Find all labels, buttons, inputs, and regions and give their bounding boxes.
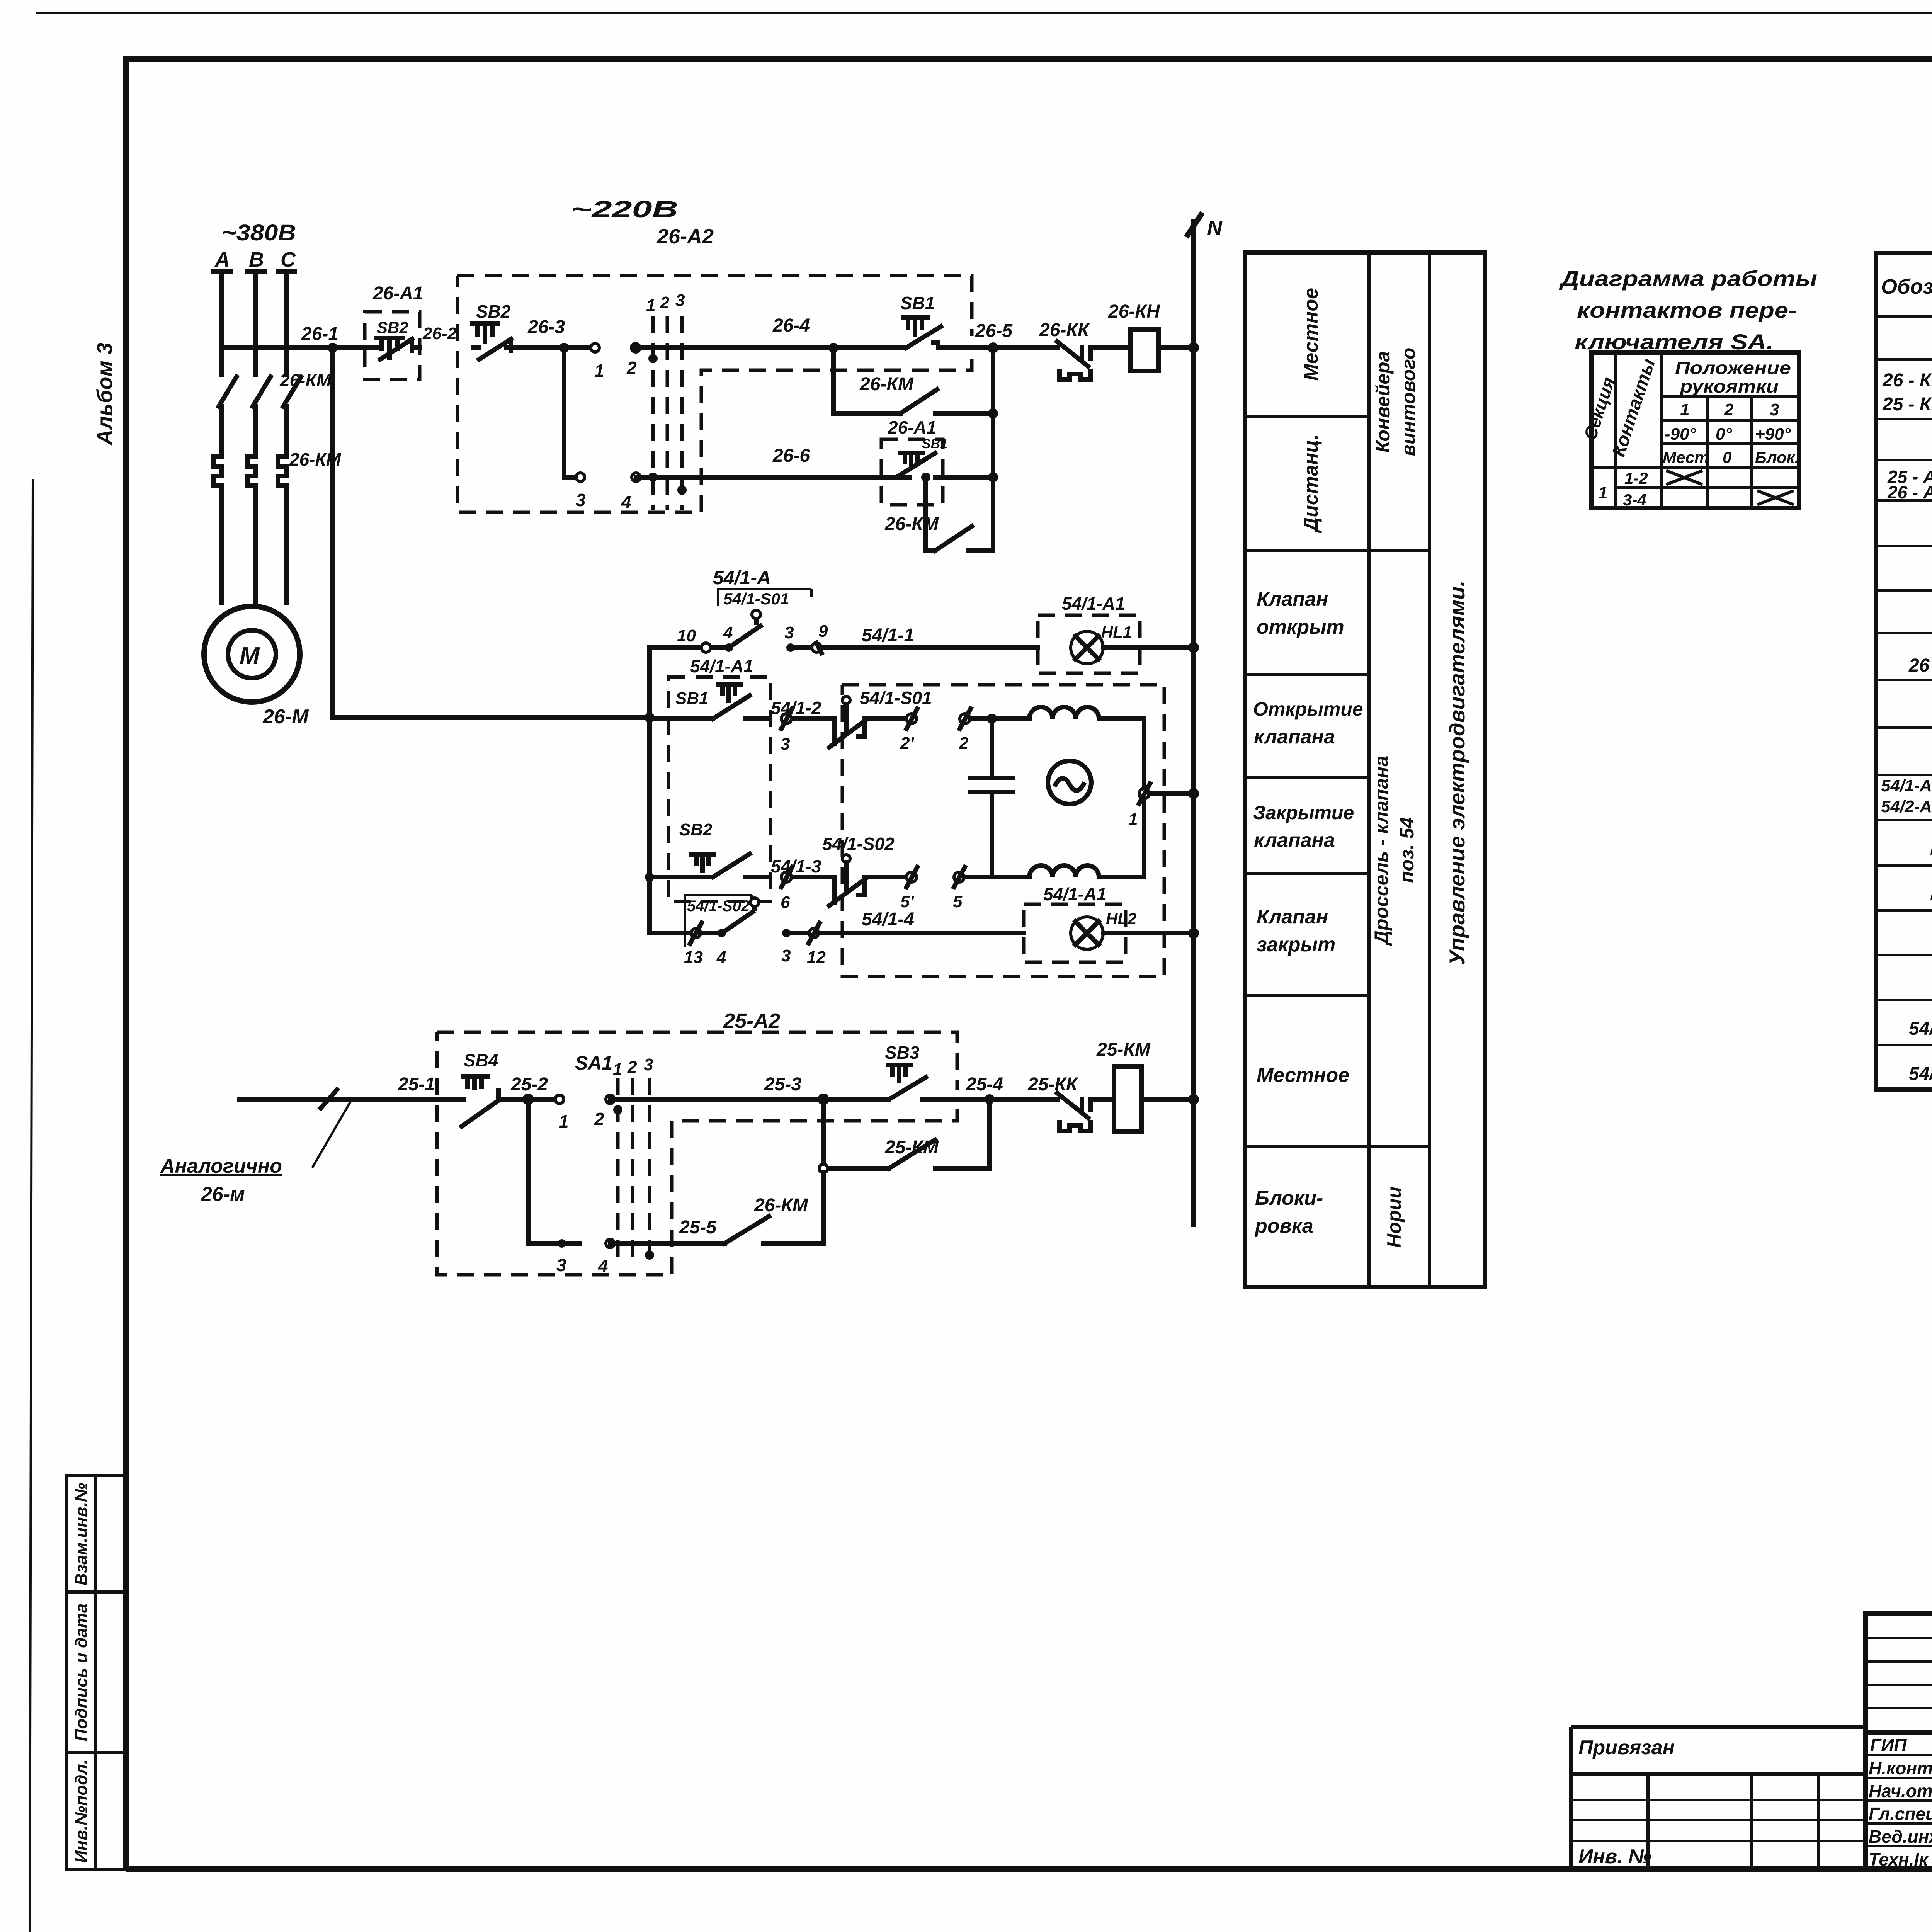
svg-text:4: 4: [621, 492, 631, 512]
svg-text:54/1-А1: 54/1-А1: [690, 656, 753, 676]
winding bottom: [1029, 866, 1099, 877]
svg-text:26-КМ: 26-КМ: [279, 370, 332, 390]
svg-text:Вед.инж.: Вед.инж.: [1869, 1827, 1932, 1847]
left riser: [647, 648, 652, 933]
svg-text:26-КМ: 26-КМ: [754, 1195, 808, 1216]
svg-text:Нач.отд.: Нач.отд.: [1869, 1781, 1932, 1801]
terminal 1: [555, 1095, 564, 1104]
svg-text:54/1-2: 54/1-2: [771, 698, 821, 718]
svg-text:Подпись и дата: Подпись и дата: [72, 1604, 91, 1742]
phase B line: [247, 272, 264, 375]
svg-text:Местное: Местное: [1257, 1064, 1349, 1087]
svg-text:0°: 0°: [1716, 425, 1732, 444]
svg-text:А: А: [214, 248, 230, 271]
svg-text:1: 1: [613, 1060, 622, 1079]
svg-text:3: 3: [781, 735, 790, 753]
svg-text:54/1-S02: 54/1-S02: [822, 834, 895, 854]
node 25-3: [819, 1095, 828, 1104]
svg-text:открыт: открыт: [1257, 616, 1344, 638]
svg-text:~220В: ~220В: [571, 196, 678, 222]
svg-text:В: В: [249, 248, 264, 271]
svg-text:Клапан: Клапан: [1257, 906, 1328, 928]
terminal 2: [631, 344, 640, 352]
svg-text:26-6: 26-6: [772, 446, 810, 466]
svg-text:поз. 54: поз. 54: [1396, 817, 1418, 883]
svg-text:контактов пере-: контактов пере-: [1577, 298, 1797, 322]
lamp HL1: [1071, 631, 1103, 664]
outer of signature grid: [1866, 1613, 1932, 1869]
svg-text:Обознач.: Обознач.: [1881, 275, 1932, 298]
aux contact 26-KM row1: [833, 348, 993, 413]
svg-text:HL1: HL1: [1930, 838, 1932, 859]
thermal elements 26-KM: [213, 457, 286, 603]
svg-text:ровка: ровка: [1254, 1215, 1313, 1237]
svg-text:HL2: HL2: [1106, 910, 1136, 928]
thick middle line: [1866, 1730, 1932, 1735]
svg-text:10: 10: [677, 626, 696, 645]
SA switch columns: [653, 316, 682, 510]
svg-text:0: 0: [1723, 448, 1731, 466]
svg-text:SB1: SB1: [675, 689, 709, 708]
svg-text:Положение: Положение: [1675, 358, 1791, 378]
svg-text:2: 2: [660, 293, 670, 312]
svg-text:26-М: 26-М: [262, 706, 309, 728]
node 26-5: [988, 342, 998, 353]
svg-text:4: 4: [716, 948, 726, 967]
svg-text:5': 5': [900, 892, 914, 911]
svg-text:25-3: 25-3: [764, 1074, 801, 1095]
node before SB1: [828, 343, 838, 353]
terminal 5': [906, 872, 917, 882]
label 54/1-S01 bracket: [718, 589, 811, 606]
svg-text:HL1: HL1: [1101, 623, 1132, 641]
svg-text:1-2: 1-2: [1624, 469, 1648, 487]
svg-text:54/1-S01: 54/1-S01: [723, 590, 789, 608]
svg-text:Клапан: Клапан: [1257, 588, 1328, 611]
box 26-A1 first: [365, 312, 420, 379]
svg-text:рукоятки: рукоятки: [1679, 376, 1779, 396]
node: [559, 343, 569, 353]
node 25-4: [985, 1094, 995, 1104]
svg-text:Привязан: Привязан: [1578, 1736, 1675, 1759]
capacitor: [971, 719, 1013, 877]
svg-text:Блок.: Блок.: [1755, 448, 1799, 466]
svg-text:26 - КМ: 26 - КМ: [1882, 370, 1932, 391]
svg-text:Конвейера: Конвейера: [1372, 351, 1394, 452]
svg-text:Гл.спец.: Гл.спец.: [1869, 1804, 1932, 1824]
svg-text:закрыт: закрыт: [1257, 934, 1335, 956]
svg-text:Закрытие: Закрытие: [1253, 802, 1354, 823]
svg-text:Управление электродвигателями: Управление электродвигателями.: [1445, 580, 1469, 965]
svg-text:+90°: +90°: [1755, 425, 1791, 444]
svg-text:3: 3: [784, 623, 794, 642]
svg-text:Мест: Мест: [1663, 448, 1709, 466]
svg-text:Диаграмма работы: Диаграмма работы: [1559, 266, 1817, 291]
terminal 1: [591, 344, 599, 352]
svg-text:Альбом 3: Альбом 3: [92, 342, 117, 446]
svg-text:SB3: SB3: [885, 1043, 920, 1063]
svg-text:Дистанц.: Дистанц.: [1300, 434, 1322, 534]
svg-text:4: 4: [598, 1256, 608, 1276]
svg-text:54/2-А: 54/2-А: [1909, 1064, 1932, 1084]
svg-text:25 - КМ: 25 - КМ: [1882, 394, 1932, 415]
svg-text:Инв.№подл.: Инв.№подл.: [72, 1759, 91, 1863]
svg-text:SB2: SB2: [377, 318, 408, 337]
terminal 2: [960, 714, 970, 724]
svg-text:54/1-3: 54/1-3: [771, 856, 821, 876]
signature rows: [1866, 1754, 1932, 1756]
svg-text:54/1-4: 54/1-4: [862, 909, 914, 930]
svg-text:25-4: 25-4: [966, 1074, 1003, 1095]
feeder wire from node 26-1: [333, 348, 650, 718]
svg-text:2': 2': [900, 734, 914, 753]
svg-text:Техн.Iк: Техн.Iк: [1869, 1849, 1929, 1869]
svg-text:5: 5: [953, 892, 963, 911]
26-A2 box outline: [457, 276, 972, 512]
wire 26-3: [511, 345, 595, 350]
terminal 1: [1139, 789, 1149, 799]
left attachment area: [1571, 1725, 1866, 1729]
25-A2 box outline: [437, 1032, 957, 1275]
node 26-1: [328, 343, 338, 353]
svg-text:54/1-А1: 54/1-А1: [1062, 594, 1125, 614]
svg-text:клапана: клапана: [1254, 829, 1335, 852]
svg-text:25-2: 25-2: [510, 1074, 548, 1095]
svg-text:26-А2: 26-А2: [656, 225, 714, 248]
svg-text:С: С: [281, 248, 296, 271]
svg-text:4: 4: [723, 623, 733, 642]
svg-text:54/1-А1: 54/1-А1: [1043, 884, 1107, 904]
table: [1592, 353, 1799, 508]
svg-text:Блоки-: Блоки-: [1255, 1187, 1323, 1209]
svg-text:2: 2: [1724, 400, 1734, 419]
svg-text:26-м: 26-м: [201, 1183, 245, 1206]
leader line: [312, 1100, 352, 1168]
svg-text:М: М: [240, 643, 260, 669]
S02 aux bracket: [685, 895, 752, 947]
svg-text:SA1: SA1: [575, 1052, 612, 1074]
svg-text:26-А1: 26-А1: [888, 417, 936, 437]
svg-text:3: 3: [675, 291, 685, 310]
svg-text:SB1: SB1: [922, 437, 947, 451]
svg-text:Местное: Местное: [1300, 288, 1322, 381]
node: [524, 1095, 532, 1104]
svg-text:Инв. №: Инв. №: [1578, 1845, 1651, 1868]
svg-text:6: 6: [781, 893, 790, 912]
node actuator output to N: [1188, 788, 1199, 799]
svg-text:1: 1: [559, 1111, 569, 1131]
node HL1 row to N: [1188, 642, 1199, 653]
svg-text:26-КН: 26-КН: [1108, 301, 1160, 322]
svg-text:клапана: клапана: [1254, 726, 1335, 748]
svg-text:Аналогично: Аналогично: [160, 1155, 282, 1177]
svg-text:Нории: Нории: [1383, 1187, 1405, 1248]
svg-text:3: 3: [576, 490, 586, 510]
svg-text:1: 1: [1598, 483, 1607, 502]
svg-text:~380В: ~380В: [222, 220, 296, 245]
terminal 5: [954, 872, 964, 882]
merge column: [991, 348, 995, 551]
svg-text:25-КМ: 25-КМ: [1096, 1039, 1151, 1060]
terminal 3: [781, 714, 791, 724]
wire bus from phase A: [222, 345, 365, 350]
svg-text:SB4: SB4: [464, 1050, 498, 1070]
svg-text:Н.контр.: Н.контр.: [1869, 1758, 1932, 1778]
row 54/1-1 aux switch: [650, 645, 699, 650]
svg-text:26-КК: 26-КК: [1039, 320, 1090, 340]
N neutral line: [1188, 215, 1201, 1224]
svg-text:Дроссель - клапана: Дроссель - клапана: [1371, 756, 1392, 946]
svg-text:54/1-А1: 54/1-А1: [1881, 776, 1932, 795]
node HL2 row to N: [1188, 928, 1199, 939]
svg-text:SB1: SB1: [900, 293, 935, 313]
svg-text:26-А1: 26-А1: [372, 283, 423, 304]
svg-text:1: 1: [1128, 810, 1138, 829]
svg-text:2: 2: [594, 1109, 604, 1129]
svg-text:3-4: 3-4: [1623, 491, 1646, 509]
svg-text:25-1: 25-1: [398, 1074, 435, 1095]
svg-text:25-КК: 25-КК: [1027, 1074, 1079, 1095]
svg-text:26-3: 26-3: [527, 317, 565, 337]
row 54/1-4: [650, 931, 691, 935]
main wire 25 row: [240, 1097, 464, 1102]
winding top: [1029, 707, 1099, 719]
svg-text:Открытие: Открытие: [1253, 698, 1363, 720]
svg-text:54/1-А: 54/1-А: [713, 567, 771, 588]
svg-text:ключателя SА.: ключателя SА.: [1575, 330, 1774, 354]
svg-text:3: 3: [781, 946, 791, 965]
svg-text:54/1-1: 54/1-1: [862, 625, 914, 646]
phase C line: [278, 272, 295, 375]
svg-text:26 - А1: 26 - А1: [1908, 655, 1932, 676]
node on N: [1188, 342, 1199, 353]
svg-text:54/1-А: 54/1-А: [1909, 1019, 1932, 1039]
svg-text:1: 1: [594, 361, 604, 381]
svg-text:26 - А2: 26 - А2: [1887, 482, 1932, 502]
svg-text:3: 3: [1770, 400, 1779, 419]
svg-text:54/2-А1: 54/2-А1: [1881, 797, 1932, 816]
junction dot feeder/riser: [645, 713, 655, 723]
motor 26-M: [204, 606, 300, 702]
svg-text:3: 3: [644, 1055, 653, 1074]
svg-text:HL2: HL2: [1930, 884, 1932, 905]
left edge stamp table: [66, 1476, 126, 1869]
svg-text:Взам.инв.№: Взам.инв.№: [72, 1483, 91, 1585]
svg-text:54/1-S01: 54/1-S01: [860, 688, 932, 708]
svg-text:13: 13: [684, 948, 703, 967]
phase A line: [213, 272, 230, 375]
svg-text:26-1: 26-1: [301, 324, 338, 344]
break mark: [321, 1090, 337, 1108]
terminal 6: [781, 872, 791, 882]
svg-text:26-5: 26-5: [975, 321, 1013, 341]
node 25 row to N: [1188, 1094, 1199, 1105]
svg-text:1: 1: [646, 296, 655, 315]
svg-text:1: 1: [1680, 400, 1689, 419]
svg-text:26-4: 26-4: [772, 315, 810, 336]
svg-text:26-КМ: 26-КМ: [884, 514, 939, 534]
svg-text:2: 2: [627, 1058, 637, 1077]
empty top grid rows: [1866, 1637, 1932, 1639]
svg-text:54/1-S02: 54/1-S02: [687, 898, 750, 915]
lower branch: [528, 1099, 560, 1243]
svg-text:26-КМ: 26-КМ: [859, 374, 914, 395]
wire 26-6 row: [564, 475, 580, 480]
svg-text:N: N: [1207, 216, 1223, 240]
actuator motor: [1048, 761, 1091, 804]
contactor 26-KM main contacts: [219, 377, 301, 457]
big actuator dashed box: [842, 685, 1164, 976]
svg-text:26-2: 26-2: [422, 324, 457, 343]
svg-text:2: 2: [626, 358, 637, 378]
svg-text:12: 12: [807, 948, 826, 967]
svg-text:-90°: -90°: [1665, 425, 1696, 444]
svg-text:SB2: SB2: [476, 301, 511, 321]
svg-text:2: 2: [959, 734, 969, 753]
terminal 2: [606, 1095, 614, 1104]
svg-text:9: 9: [818, 622, 828, 641]
terminal 2': [906, 714, 917, 724]
svg-text:ГИП: ГИП: [1870, 1735, 1907, 1755]
svg-text:винтового: винтового: [1398, 348, 1419, 456]
svg-text:25-А2: 25-А2: [723, 1009, 780, 1032]
svg-text:SB2: SB2: [679, 820, 713, 839]
svg-text:25-5: 25-5: [679, 1217, 717, 1238]
svg-text:3: 3: [556, 1255, 566, 1275]
junction dots on merge column: [988, 408, 998, 418]
